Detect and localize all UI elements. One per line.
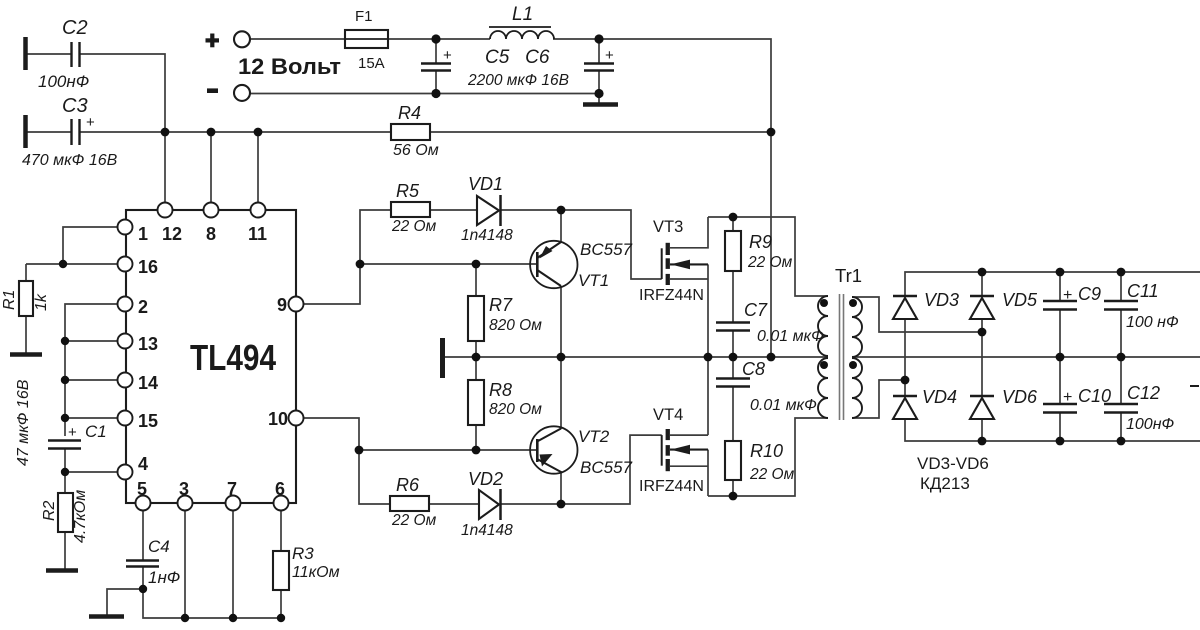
wire VT2 collector column	[560, 357, 562, 429]
svg-text:3: 3	[179, 479, 189, 499]
wire VT3 drain	[670, 217, 708, 248]
node VCC rail pin11	[254, 128, 263, 137]
svg-text:C10: C10	[1078, 386, 1111, 406]
svg-text:+: +	[68, 424, 77, 441]
svg-text:VT1: VT1	[578, 271, 609, 290]
svg-text:C12: C12	[1127, 383, 1160, 403]
node VT3 source mid	[704, 353, 713, 362]
wire VD5 cathode	[981, 272, 983, 297]
capacitor C5	[421, 64, 451, 71]
wire C8 leads	[732, 357, 734, 441]
svg-text:1: 1	[138, 224, 148, 244]
resistor R5	[391, 202, 430, 217]
pin 6	[274, 496, 289, 511]
svg-text:R6: R6	[396, 475, 420, 495]
wire C12 leads	[1120, 357, 1122, 441]
svg-text:VT4: VT4	[653, 406, 683, 424]
svg-text:VT3: VT3	[653, 218, 683, 236]
wire secondary center tap rail	[852, 356, 1200, 358]
wire pin15 stub	[65, 417, 118, 419]
label plus terminal	[206, 34, 220, 48]
wire pin2 bus down	[65, 304, 118, 436]
svg-text:TL494: TL494	[190, 337, 276, 378]
svg-text:C9: C9	[1078, 284, 1101, 304]
svg-text:VD5: VD5	[1002, 290, 1038, 310]
wire VT1 emitter column	[560, 210, 562, 243]
wire VD5 anode to VD6 cathode	[981, 319, 983, 397]
node C9 top rail	[1056, 268, 1065, 277]
resistor R8	[468, 380, 484, 425]
wire VD2 to VT4 gate corner	[500, 435, 662, 504]
wire C11 leads	[1120, 272, 1122, 357]
wire pin5 to C4	[142, 510, 144, 560]
ground bar C2	[23, 37, 28, 70]
svg-text:22 Ом: 22 Ом	[391, 218, 437, 235]
ground bar C6	[583, 102, 618, 107]
wire C4 ground stub	[107, 589, 143, 616]
svg-text:22 Ом: 22 Ом	[391, 512, 437, 529]
transformer Tr1 core	[840, 294, 844, 420]
node pin14 bus	[61, 376, 69, 384]
svg-text:11: 11	[248, 224, 267, 244]
svg-text:R7: R7	[489, 295, 513, 315]
wire pin8 drop	[210, 132, 212, 203]
phasing dot secondary top	[849, 299, 857, 307]
wire top switch rail	[708, 217, 828, 296]
transistor VT2	[530, 426, 577, 473]
wire C2 top row	[27, 54, 165, 132]
node R4 +12	[767, 128, 776, 137]
node L1 out C6	[594, 34, 603, 43]
node pin7 bottom rail	[229, 614, 237, 622]
wire + terminal to fuse	[250, 38, 345, 40]
node VD5 anode sec top	[978, 328, 987, 337]
node C5 minus	[431, 89, 440, 98]
wire C7 bottom lead	[732, 331, 734, 357]
svg-text:15: 15	[138, 411, 158, 431]
node VD1 emitter1	[557, 206, 566, 215]
svg-text:IRFZ44N: IRFZ44N	[639, 287, 704, 304]
svg-text:10: 10	[268, 409, 288, 429]
wire bottom switch rail	[708, 418, 828, 496]
svg-text:+: +	[1063, 287, 1072, 304]
node R7 base1	[472, 260, 481, 269]
wire secondary bottom to VD3 anode	[852, 380, 905, 418]
pin 3	[178, 496, 193, 511]
wire L1 to corner x771	[553, 39, 771, 132]
diode VD2	[479, 489, 501, 520]
node R6 tap	[355, 446, 364, 455]
ground bar R2	[46, 568, 78, 573]
svg-text:Tr1: Tr1	[835, 265, 862, 286]
svg-text:4: 4	[138, 454, 148, 474]
node R5 tap	[356, 260, 365, 269]
pin 15	[118, 411, 133, 426]
wire R4 right to +12 feed	[430, 131, 771, 133]
capacitor C8	[716, 379, 750, 387]
svg-text:VD4: VD4	[922, 387, 957, 407]
wire pin4 stub	[65, 471, 118, 473]
ground bar C4	[89, 614, 124, 619]
wire pin7 drop	[232, 510, 234, 618]
node VD3 anode sec bottom	[901, 376, 910, 385]
svg-text:VD2: VD2	[468, 469, 503, 489]
wire pin3 drop	[184, 510, 186, 618]
resistor R10	[725, 441, 741, 480]
ground bar C3	[23, 115, 28, 148]
svg-text:6: 6	[275, 479, 285, 499]
wire VT1 collector column	[560, 286, 562, 357]
wire VD4 anode to bottom rail	[905, 419, 1200, 441]
pin 7	[226, 496, 241, 511]
wire R7 leads	[475, 264, 477, 357]
capacitor C6	[584, 64, 614, 71]
capacitor C1	[48, 441, 81, 449]
node pin15 bus	[61, 414, 69, 422]
svg-text:VD3-VD6: VD3-VD6	[917, 454, 989, 473]
svg-text:C7: C7	[744, 300, 768, 320]
pin 1	[118, 220, 133, 235]
svg-text:R5: R5	[396, 181, 420, 201]
svg-text:BC557: BC557	[580, 240, 633, 259]
svg-text:+: +	[443, 47, 452, 64]
pin 8	[204, 203, 219, 218]
wire C5 column	[435, 39, 437, 94]
mosfet VT4	[662, 429, 708, 471]
node VCC rail pin12	[161, 128, 170, 137]
pin 2	[118, 297, 133, 312]
wire base line VT2	[359, 449, 537, 451]
wire VT3 source	[670, 264, 708, 357]
pin 11	[251, 203, 266, 218]
capacitor C10	[1043, 404, 1077, 413]
svg-text:820 Ом: 820 Ом	[489, 317, 542, 334]
svg-text:14: 14	[138, 373, 158, 393]
wire C6 column	[598, 39, 600, 104]
svg-text:9: 9	[277, 295, 287, 315]
diode VD4	[893, 396, 917, 419]
wire R10 bottom lead	[732, 480, 734, 496]
terminal +	[234, 31, 250, 47]
svg-text:+: +	[605, 47, 614, 64]
node C12 bottom rail	[1117, 437, 1126, 446]
node pin3 bottom rail	[181, 614, 189, 622]
svg-text:100нФ: 100нФ	[38, 72, 89, 91]
wire pin10 down to R6	[303, 418, 390, 504]
pin 4	[118, 465, 133, 480]
wire C1 bottom to node4	[64, 449, 66, 472]
svg-text:C2: C2	[62, 17, 88, 39]
wire R1 bottom lead to ground	[25, 316, 27, 354]
svg-text:R8: R8	[489, 380, 512, 400]
node VD5 cathode top rail	[978, 268, 987, 277]
phasing dot primary top	[820, 299, 828, 307]
node A fuse-C5	[431, 34, 440, 43]
phasing dot primary bottom	[820, 361, 828, 369]
svg-text:+: +	[86, 114, 95, 131]
wire pin9 up to R5	[303, 210, 391, 304]
resistor R1	[19, 281, 33, 316]
svg-text:VT2: VT2	[578, 427, 610, 446]
svg-text:F1: F1	[355, 8, 373, 25]
svg-text:11кОм: 11кОм	[292, 564, 340, 581]
capacitor C2	[72, 42, 80, 67]
ground bar center	[440, 338, 445, 378]
capacitor C4	[126, 561, 159, 567]
wire R2 top lead	[64, 472, 66, 493]
svg-text:12: 12	[162, 224, 182, 244]
svg-text:15A: 15A	[358, 55, 385, 72]
wire output top rail	[905, 272, 1200, 297]
node pin13 bus	[61, 337, 69, 345]
wire C3 VCC rail to R4	[27, 131, 391, 133]
wire mid ground rail left	[445, 356, 828, 358]
IC U1 TL494 body	[126, 210, 296, 503]
svg-text:56 Ом: 56 Ом	[393, 142, 439, 159]
diode VD6	[970, 396, 994, 419]
resistor R2	[58, 493, 73, 532]
svg-text:12 Вольт: 12 Вольт	[238, 54, 341, 79]
node R10 bottom rail	[729, 492, 738, 501]
wire R2 bottom to ground	[64, 532, 66, 570]
label minus terminal	[207, 88, 218, 93]
svg-text:R3: R3	[292, 544, 314, 563]
node collectors mid	[557, 353, 566, 362]
svg-text:BC557: BC557	[580, 458, 633, 477]
node VD6 anode bottom rail	[978, 437, 987, 446]
svg-text:7: 7	[227, 479, 237, 499]
svg-text:IRFZ44N: IRFZ44N	[639, 478, 704, 495]
svg-text:R1: R1	[1, 290, 18, 310]
svg-text:820 Ом: 820 Ом	[489, 401, 542, 418]
wire R5 to VD1	[430, 209, 477, 211]
svg-text:VD6: VD6	[1002, 387, 1038, 407]
svg-text:470 мкФ 16В: 470 мкФ 16В	[22, 152, 118, 169]
svg-text:C3: C3	[62, 95, 88, 117]
pin 12	[158, 203, 173, 218]
output tick right edge	[1190, 385, 1199, 387]
node C11 mid rail	[1117, 353, 1126, 362]
svg-text:+: +	[1063, 389, 1072, 406]
svg-text:100нФ: 100нФ	[1126, 416, 1175, 433]
svg-text:C1: C1	[85, 422, 107, 441]
wire pin11 drop	[257, 132, 259, 203]
node pin1-16	[59, 260, 67, 268]
node pin4 C1 R2	[61, 468, 69, 476]
capacitor C9	[1043, 301, 1077, 310]
transistor VT1	[530, 241, 577, 288]
node pin6 bottom rail	[277, 614, 285, 622]
svg-text:2200 мкФ 16В: 2200 мкФ 16В	[467, 72, 569, 89]
svg-text:22 Ом: 22 Ом	[747, 254, 793, 271]
node center tap feed	[767, 353, 776, 362]
wire pin6 to R3	[280, 510, 282, 551]
svg-text:R4: R4	[398, 103, 421, 123]
svg-text:КД213: КД213	[920, 474, 970, 493]
node C11 top rail	[1117, 268, 1126, 277]
wire R3 bottom	[280, 590, 282, 618]
svg-text:L1: L1	[512, 4, 533, 25]
transformer Tr1 primary winding	[818, 296, 828, 418]
svg-text:16: 16	[138, 257, 158, 277]
node R9 top rail	[729, 213, 738, 222]
svg-text:1нФ: 1нФ	[148, 568, 180, 587]
wire VT2 emitter column	[560, 471, 562, 504]
svg-text:VD3: VD3	[924, 290, 959, 310]
wire VD6 anode	[981, 419, 983, 441]
node C7C8 mid	[729, 353, 738, 362]
diode VD3	[893, 296, 917, 319]
wire R8 leads	[475, 357, 477, 450]
pin 5	[136, 496, 151, 511]
wire fuse to node A	[388, 38, 436, 40]
node R8 base2	[472, 446, 481, 455]
svg-text:47 мкФ 16В: 47 мкФ 16В	[15, 379, 32, 466]
resistor R9	[725, 231, 741, 271]
wire C9 leads	[1059, 272, 1061, 357]
resistor R4	[391, 124, 430, 140]
fuse F1	[345, 30, 388, 48]
wire base line VT1	[360, 263, 537, 265]
inductor L1	[489, 27, 554, 39]
pin 10	[289, 411, 304, 426]
terminal -	[234, 85, 250, 101]
capacitor C12	[1104, 404, 1138, 413]
svg-text:13: 13	[138, 334, 158, 354]
resistor R7	[468, 296, 484, 341]
wire pin1 to R1 node	[63, 227, 118, 264]
svg-text:C5 C6: C5 C6	[485, 47, 550, 68]
wire secondary top to VD5 anode	[852, 297, 982, 332]
wire R1 top lead	[25, 264, 27, 281]
svg-text:C4: C4	[148, 537, 170, 556]
pin 14	[118, 373, 133, 388]
wire pin14 stub	[65, 379, 118, 381]
wire +12 vertical feed to center tap rail	[770, 132, 772, 357]
wire C10 leads	[1059, 357, 1061, 441]
capacitor C11	[1104, 301, 1138, 310]
svg-text:2: 2	[138, 297, 148, 317]
svg-text:1k: 1k	[33, 293, 50, 311]
svg-text:VD1: VD1	[468, 174, 503, 194]
wire VT4 drain	[670, 357, 708, 435]
node VCC rail pin8	[207, 128, 216, 137]
svg-text:R9: R9	[749, 232, 772, 252]
wire pin13 stub	[65, 340, 118, 342]
ground bar R1	[10, 352, 42, 357]
wire C4 bottom column	[143, 567, 281, 618]
pin 9	[289, 297, 304, 312]
node C9 mid rail	[1056, 353, 1065, 362]
mosfet VT3	[662, 243, 708, 285]
svg-text:1n4148: 1n4148	[461, 227, 513, 244]
diode VD5	[970, 296, 994, 319]
node R7R8 mid	[472, 353, 481, 362]
phasing dot secondary bottom	[849, 361, 857, 369]
node C10 bottom rail	[1056, 437, 1065, 446]
wire node A to L1	[436, 38, 490, 40]
svg-text:8: 8	[206, 224, 216, 244]
wire pin16 to R1	[26, 263, 118, 265]
node VD2 emitter2	[557, 500, 566, 509]
node C6 minus	[594, 89, 603, 98]
wire VD1 to VT3 gate corner	[501, 210, 662, 279]
pin 16	[118, 257, 133, 272]
transformer Tr1 secondary winding	[852, 297, 862, 418]
wire VD3 anode to VD4 cathode	[904, 319, 906, 397]
pin 13	[118, 334, 133, 349]
wire R9 leads	[732, 217, 734, 322]
svg-text:1n4148: 1n4148	[461, 522, 513, 539]
capacitor C3	[72, 119, 80, 145]
svg-text:0.01 мкФ: 0.01 мкФ	[757, 328, 824, 345]
node C4 ground tap	[139, 585, 147, 593]
wire R6 to VD2	[429, 503, 479, 505]
svg-text:C8: C8	[742, 359, 765, 379]
resistor R6	[390, 496, 429, 511]
capacitor C7	[716, 323, 750, 331]
svg-text:4.7кОм: 4.7кОм	[72, 490, 89, 543]
diode VD1	[477, 195, 501, 226]
wire VT4 source	[670, 450, 708, 496]
svg-text:C11: C11	[1127, 281, 1159, 301]
svg-text:R2: R2	[41, 500, 58, 521]
svg-text:0.01 мкФ: 0.01 мкФ	[750, 397, 817, 414]
svg-text:R10: R10	[750, 441, 783, 461]
wire - terminal rail	[250, 93, 599, 95]
wire pin12 drop	[164, 132, 166, 203]
resistor R3	[273, 551, 289, 590]
svg-text:22 Ом: 22 Ом	[749, 466, 795, 483]
svg-text:100 нФ: 100 нФ	[1126, 314, 1179, 331]
svg-text:5: 5	[137, 479, 147, 499]
